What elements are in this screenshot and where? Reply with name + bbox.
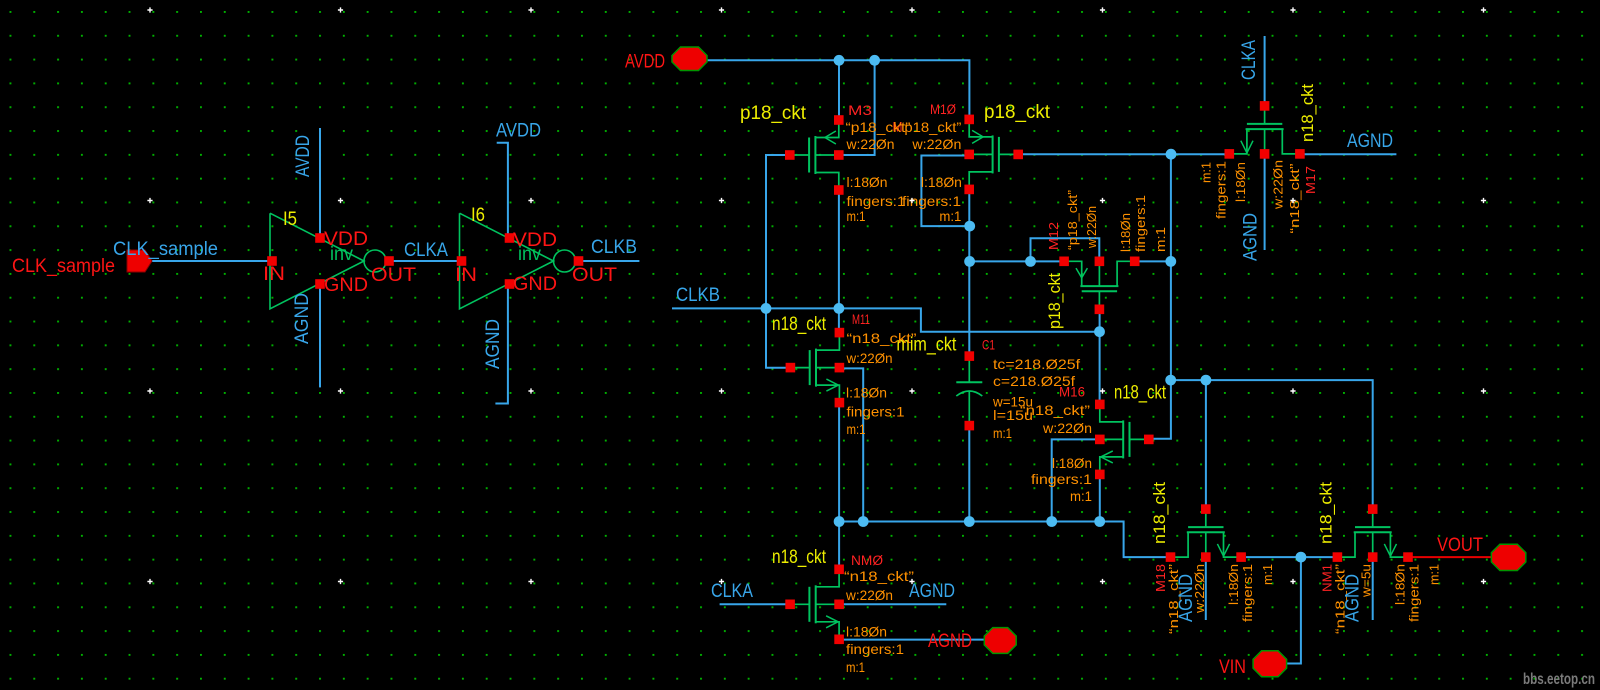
svg-text:m:1: m:1 (1154, 227, 1168, 252)
svg-text:I6: I6 (471, 205, 485, 226)
svg-text:“n18_ckt”: “n18_ckt” (847, 330, 917, 346)
svg-text:bbs.eetop.cn: bbs.eetop.cn (1523, 671, 1595, 688)
svg-text:w:22Øn: w:22Øn (845, 587, 893, 603)
svg-text:AGND: AGND (1347, 131, 1393, 152)
svg-text:n18_ckt: n18_ckt (772, 547, 827, 568)
svg-text:M18: M18 (1153, 564, 1168, 592)
svg-text:m:1: m:1 (993, 425, 1012, 441)
svg-text:M12: M12 (1046, 222, 1061, 250)
svg-text:l:18Øn: l:18Øn (921, 174, 962, 190)
svg-text:w:22Øn: w:22Øn (846, 136, 895, 152)
svg-text:VIN: VIN (1219, 656, 1246, 678)
svg-text:fingers:1: fingers:1 (1215, 161, 1229, 219)
svg-text:inv: inv (330, 244, 353, 265)
svg-text:AGND: AGND (909, 581, 955, 602)
svg-text:m:1: m:1 (1070, 488, 1092, 504)
svg-text:CLKB: CLKB (676, 285, 720, 306)
svg-text:NM1: NM1 (1320, 564, 1335, 592)
svg-text:n18_ckt: n18_ckt (1151, 482, 1169, 544)
svg-text:w=5u: w=5u (1360, 564, 1374, 598)
svg-text:m:1: m:1 (1261, 564, 1275, 585)
svg-text:I5: I5 (283, 209, 297, 230)
svg-text:AVDD: AVDD (293, 135, 314, 177)
svg-text:n18_ckt: n18_ckt (1114, 383, 1167, 404)
svg-text:CLKA: CLKA (711, 581, 753, 602)
svg-text:m:1: m:1 (939, 208, 961, 224)
svg-text:p18_ckt: p18_ckt (984, 102, 1051, 123)
svg-text:“n18_ckt”: “n18_ckt” (844, 568, 914, 584)
svg-text:fingers:1: fingers:1 (847, 193, 906, 209)
svg-text:“n18_ckt”: “n18_ckt” (1288, 164, 1302, 234)
svg-text:l:18Øn: l:18Øn (847, 174, 888, 190)
svg-text:w:22Øn: w:22Øn (911, 136, 961, 152)
svg-text:M17: M17 (1303, 166, 1318, 194)
svg-text:w:22Øn: w:22Øn (1272, 160, 1286, 210)
svg-text:“p18_ckt”: “p18_ckt” (1066, 190, 1080, 250)
svg-text:w:22Øn: w:22Øn (1085, 206, 1099, 249)
svg-text:p18_ckt: p18_ckt (1046, 273, 1064, 329)
svg-text:m:1: m:1 (847, 208, 866, 224)
svg-text:IN: IN (263, 263, 285, 285)
svg-text:c=218.Ø25f: c=218.Ø25f (993, 373, 1075, 389)
svg-text:OUT: OUT (371, 264, 416, 286)
svg-text:m:1: m:1 (846, 659, 865, 675)
svg-text:inv: inv (518, 244, 541, 265)
svg-text:AVDD: AVDD (625, 51, 665, 73)
svg-text:l:18Øn: l:18Øn (1052, 455, 1092, 471)
svg-text:M11: M11 (852, 312, 870, 327)
svg-text:CLKB: CLKB (591, 237, 637, 258)
svg-text:NMØ: NMØ (851, 553, 884, 568)
svg-text:fingers:1: fingers:1 (1241, 564, 1255, 622)
svg-text:l:18Øn: l:18Øn (1119, 213, 1133, 252)
svg-text:GND: GND (513, 273, 557, 295)
svg-text:M3: M3 (848, 103, 872, 118)
svg-text:w:22Øn: w:22Øn (846, 350, 893, 366)
svg-text:C1: C1 (982, 338, 995, 353)
svg-text:fingers:1: fingers:1 (1031, 471, 1092, 487)
svg-text:M1Ø: M1Ø (930, 102, 956, 117)
svg-text:GND: GND (324, 274, 368, 296)
svg-text:CLK_sample: CLK_sample (113, 239, 218, 260)
svg-text:l:18Øn: l:18Øn (1394, 564, 1408, 605)
svg-text:w:22Øn: w:22Øn (1193, 564, 1207, 614)
svg-text:n18_ckt: n18_ckt (772, 314, 827, 335)
svg-text:fingers:1: fingers:1 (1134, 195, 1148, 252)
svg-text:fingers:1: fingers:1 (846, 641, 904, 657)
svg-text:AGND: AGND (292, 293, 313, 344)
svg-text:l:18Øn: l:18Øn (1234, 162, 1248, 202)
svg-text:IN: IN (455, 264, 477, 286)
svg-text:“n18_ckt”: “n18_ckt” (1020, 402, 1090, 418)
svg-text:n18_ckt: n18_ckt (1318, 482, 1336, 544)
svg-text:CLKA: CLKA (1239, 40, 1260, 80)
svg-text:p18_ckt: p18_ckt (740, 103, 807, 124)
svg-text:l:18Øn: l:18Øn (1227, 564, 1241, 605)
svg-text:AGND: AGND (928, 630, 972, 652)
svg-text:w:22Øn: w:22Øn (1042, 420, 1092, 436)
svg-text:m:1: m:1 (1428, 564, 1442, 585)
svg-text:AGND: AGND (1241, 213, 1262, 261)
svg-text:CLK_sample: CLK_sample (12, 255, 115, 277)
svg-text:n18_ckt: n18_ckt (1299, 84, 1317, 142)
svg-text:m:1: m:1 (847, 421, 866, 437)
svg-text:AVDD: AVDD (496, 121, 541, 142)
svg-text:fingers:1: fingers:1 (847, 403, 905, 419)
svg-text:AGND: AGND (483, 319, 504, 369)
svg-text:OUT: OUT (572, 264, 617, 286)
svg-text:CLKA: CLKA (404, 240, 448, 261)
svg-text:l:18Øn: l:18Øn (846, 624, 887, 640)
svg-text:VOUT: VOUT (1437, 534, 1483, 556)
svg-text:tc=218.Ø25f: tc=218.Ø25f (993, 356, 1080, 372)
svg-text:l:18Øn: l:18Øn (846, 385, 887, 401)
svg-text:m:1: m:1 (1200, 162, 1214, 183)
svg-text:fingers:1: fingers:1 (1408, 564, 1422, 622)
svg-text:“p18_ckt”: “p18_ckt” (899, 119, 961, 135)
